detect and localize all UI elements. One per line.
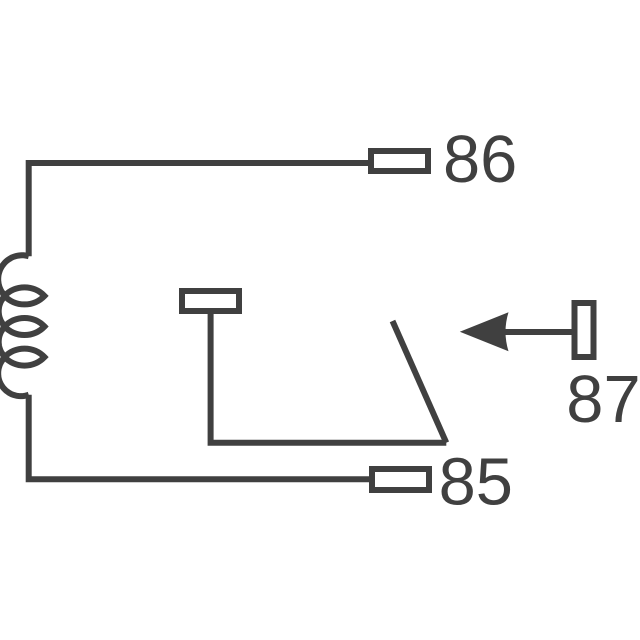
svg-text:85: 85 xyxy=(439,446,513,520)
svg-text:86: 86 xyxy=(443,123,517,197)
coil L1 loop 1 xyxy=(5,287,45,304)
coil L1 winding spine (left arcs) xyxy=(0,255,29,396)
wire: top wire from coil to pin 86 terminal xyxy=(29,163,368,256)
wire: pole stem and bottom run to switch blade xyxy=(211,311,447,443)
terminal pin 85 xyxy=(372,469,429,490)
coil L1 loop 3 xyxy=(5,349,45,366)
wire: left vertical below coil and bottom wire to pin 85 terminal xyxy=(29,395,369,480)
common pole fixed contact terminal xyxy=(182,291,239,311)
coil L1 loop 2 xyxy=(5,318,45,335)
terminal pin 86 xyxy=(371,151,428,171)
switch blade (movable contact) xyxy=(393,321,447,443)
svg-text:87: 87 xyxy=(566,363,640,437)
arrowhead pointing to blade xyxy=(460,312,509,351)
wire: arrow shaft from pin 87 terminal xyxy=(505,329,572,335)
terminal pin 87 xyxy=(575,303,594,357)
